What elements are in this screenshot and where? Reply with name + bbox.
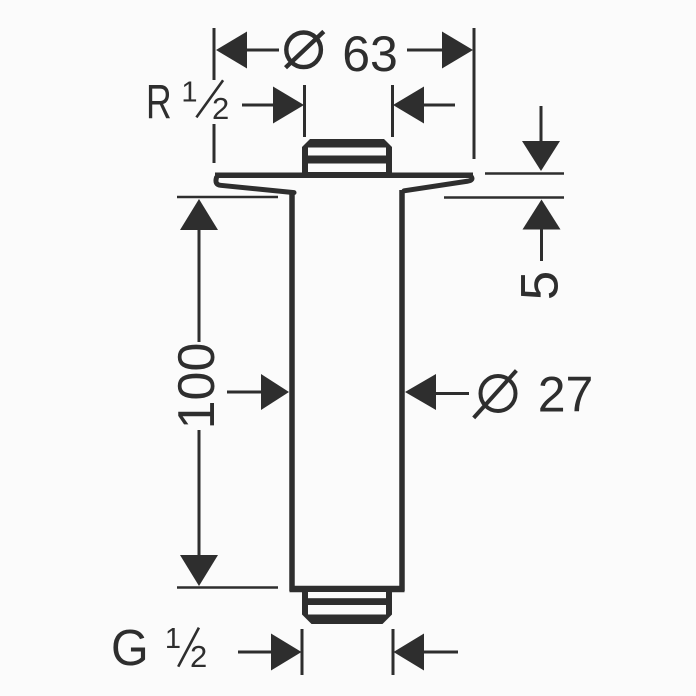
dim line 100 upper	[198, 229, 201, 342]
svg-text:1: 1	[165, 623, 181, 655]
extension line left of dia63	[213, 28, 216, 80]
dim line R1/2 right	[422, 104, 455, 107]
dim line G1/2 left	[238, 651, 272, 654]
arrowhead 100 down	[180, 555, 218, 586]
diameter symbol of dia63 label	[286, 33, 321, 68]
pipe bottom shoulder	[290, 586, 405, 593]
bottom thread G1/2	[302, 592, 392, 624]
extension line right of dia63	[473, 28, 476, 159]
svg-text:100: 100	[168, 343, 226, 430]
tick line 5 lower	[444, 196, 564, 199]
label G fraction slash	[178, 628, 199, 667]
arrowhead dia63 left	[216, 32, 247, 69]
tick line 100 lower	[177, 586, 278, 589]
arrowhead 100 up	[180, 199, 218, 230]
arrowhead 5 up	[523, 200, 561, 230]
dim line 5 lower vertical	[540, 229, 543, 262]
dim line G1/2 right	[422, 651, 458, 654]
extension line R1/2 left	[303, 85, 306, 137]
svg-text:2: 2	[212, 91, 229, 126]
dim line R1/2 left	[242, 104, 275, 107]
arrowhead 5 down	[522, 141, 560, 171]
flange right rim curl and underside	[404, 177, 472, 191]
svg-text:G: G	[111, 619, 149, 676]
extension line G1/2 right	[392, 629, 395, 675]
arrowhead R1/2 right	[393, 87, 424, 124]
arrowhead dia27 right	[405, 374, 436, 410]
tick line 100 upper	[177, 196, 278, 199]
svg-text:1: 1	[181, 77, 197, 109]
label R fraction slash	[196, 80, 223, 117]
arrowhead dia27 left	[261, 374, 289, 410]
top nut R1/2 connector	[302, 139, 392, 176]
svg-text:2: 2	[190, 639, 207, 674]
dim line 5 upper vertical	[540, 106, 543, 142]
dim line 100 lower	[198, 430, 201, 557]
pipe right wall	[399, 190, 405, 591]
arrowhead dia63 right	[442, 32, 473, 69]
flange left rim curl and underside	[216, 178, 294, 193]
svg-text:27: 27	[538, 367, 594, 423]
extension line R1/2 right	[391, 85, 394, 137]
diameter symbol of dia27 label	[481, 376, 516, 411]
arrowhead R1/2 left	[273, 87, 304, 124]
arrowhead G1/2 left	[271, 634, 302, 671]
svg-text:5: 5	[511, 271, 570, 300]
svg-text:63: 63	[342, 26, 398, 82]
dim line dia63 right	[407, 49, 442, 52]
svg-text:R: R	[146, 75, 172, 128]
dim line dia27 left	[227, 391, 264, 394]
extension line G1/2 left	[301, 629, 304, 675]
dim line dia27 right	[434, 392, 469, 395]
pipe left wall	[289, 191, 295, 591]
tick line 5 upper	[485, 172, 564, 175]
arrowhead G1/2 right	[394, 634, 425, 671]
dim line dia63 left	[247, 49, 279, 52]
flange top edge	[215, 173, 473, 179]
